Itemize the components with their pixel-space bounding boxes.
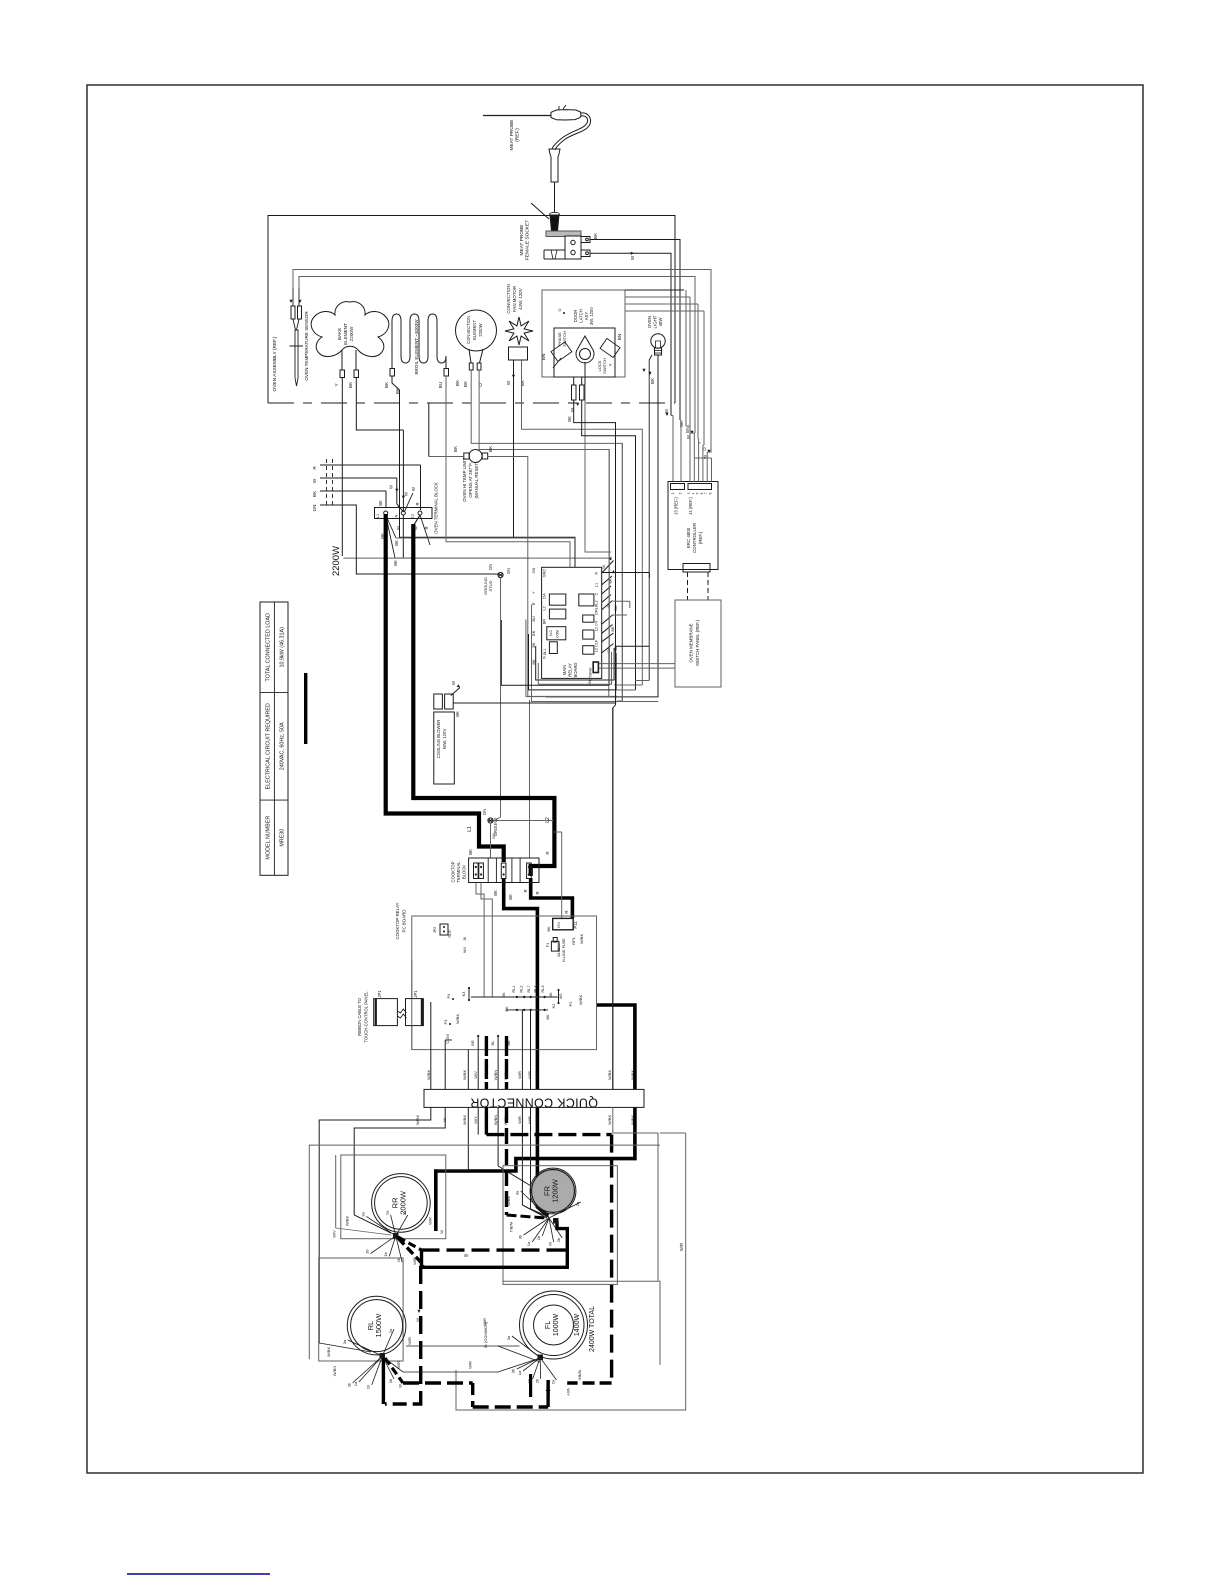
svg-text:1a: 1a bbox=[385, 1210, 390, 1215]
svg-text:W/BK: W/BK bbox=[345, 1216, 350, 1227]
svg-text:3a: 3a bbox=[360, 1211, 365, 1216]
svg-text:COM: COM bbox=[445, 1034, 450, 1043]
svg-text:L2: L2 bbox=[543, 606, 547, 610]
svg-text:BN: BN bbox=[685, 427, 690, 433]
svg-text:3A 250V: 3A 250V bbox=[557, 942, 561, 957]
svg-text:GN: GN bbox=[532, 567, 536, 573]
svg-text:W/BK: W/BK bbox=[462, 1070, 467, 1081]
svg-text:240VAC, 60Hz, 50A: 240VAC, 60Hz, 50A bbox=[280, 722, 286, 770]
svg-text:MEAT PROBE: MEAT PROBE bbox=[509, 119, 515, 150]
svg-text:Y: Y bbox=[608, 363, 613, 366]
svg-text:1b: 1b bbox=[536, 1235, 541, 1240]
svg-text:W4: W4 bbox=[463, 947, 467, 953]
svg-text:BK: BK bbox=[312, 490, 317, 497]
svg-text:BU: BU bbox=[532, 616, 536, 622]
svg-text:W: W bbox=[404, 492, 409, 496]
svg-text:W/R: W/R bbox=[517, 1116, 522, 1124]
svg-text:LIGHT: LIGHT bbox=[653, 315, 658, 328]
svg-text:3a: 3a bbox=[515, 1190, 520, 1195]
svg-text:R: R bbox=[523, 889, 528, 892]
svg-text:R: R bbox=[532, 602, 536, 605]
svg-text:1200W: 1200W bbox=[551, 1178, 560, 1203]
svg-text:N-LINE FUSE: N-LINE FUSE bbox=[562, 938, 566, 962]
svg-text:2200W: 2200W bbox=[349, 326, 354, 341]
svg-text:W/BU: W/BU bbox=[509, 1222, 514, 1233]
svg-text:1b: 1b bbox=[383, 1251, 388, 1256]
svg-text:W/R: W/R bbox=[396, 1361, 401, 1369]
svg-text:OVEN MEMBRANE: OVEN MEMBRANE bbox=[689, 623, 694, 662]
svg-text:GND: GND bbox=[543, 569, 547, 578]
svg-text:W/R: W/R bbox=[407, 1337, 412, 1345]
svg-text:P2: P2 bbox=[568, 1001, 573, 1007]
svg-text:W/BK: W/BK bbox=[577, 1370, 582, 1381]
svg-text:W/BU: W/BU bbox=[503, 1070, 508, 1081]
svg-text:RL4: RL4 bbox=[534, 986, 538, 993]
svg-text:1: 1 bbox=[671, 492, 675, 494]
svg-text:BK: BK bbox=[384, 381, 389, 388]
svg-text:COOKTOP: COOKTOP bbox=[451, 861, 456, 882]
svg-text:W/BK: W/BK bbox=[506, 1196, 511, 1207]
svg-text:PC BOARD: PC BOARD bbox=[402, 910, 407, 933]
svg-text:JP1: JP1 bbox=[413, 990, 418, 998]
svg-text:GN: GN bbox=[506, 568, 511, 574]
svg-text:BK: BK bbox=[508, 894, 513, 900]
svg-text:BK: BK bbox=[455, 711, 460, 717]
svg-text:L1: L1 bbox=[467, 826, 473, 832]
svg-text:BLOCK: BLOCK bbox=[461, 865, 466, 879]
svg-text:COOLING BLOWER: COOLING BLOWER bbox=[436, 720, 441, 759]
svg-text:CONVECTION: CONVECTION bbox=[506, 284, 511, 313]
svg-text:1a: 1a bbox=[353, 1381, 358, 1386]
svg-text:TERMINAL: TERMINAL bbox=[456, 861, 461, 883]
svg-text:DA: DA bbox=[543, 593, 547, 599]
svg-text:Y: Y bbox=[334, 383, 339, 386]
svg-text:N: N bbox=[395, 514, 399, 517]
svg-text:W/V: W/V bbox=[332, 1230, 337, 1238]
svg-text:CONTROLLER: CONTROLLER bbox=[692, 523, 697, 553]
svg-text:W/R: W/R bbox=[534, 1116, 539, 1124]
svg-text:W/R: W/R bbox=[517, 1071, 522, 1079]
svg-text:W/R: W/R bbox=[482, 1318, 487, 1326]
svg-text:TOUCH-CONTROL PANEL: TOUCH-CONTROL PANEL bbox=[364, 991, 369, 1043]
svg-text:3a: 3a bbox=[342, 1339, 347, 1344]
svg-text:R: R bbox=[545, 851, 550, 854]
svg-text:BK: BK bbox=[468, 849, 473, 855]
svg-text:W/R: W/R bbox=[527, 1116, 532, 1124]
svg-text:2b: 2b bbox=[396, 1257, 401, 1262]
svg-text:GN: GN bbox=[482, 809, 487, 815]
svg-text:K3: K3 bbox=[462, 992, 466, 997]
svg-text:BK: BK bbox=[567, 416, 572, 422]
svg-text:RL2: RL2 bbox=[520, 986, 524, 993]
svg-text:3a: 3a bbox=[506, 1335, 511, 1340]
svg-text:CONVECTION: CONVECTION bbox=[466, 316, 471, 344]
svg-text:OVEN: OVEN bbox=[647, 316, 652, 328]
svg-text:L2: L2 bbox=[411, 514, 415, 518]
svg-text:BK: BK bbox=[593, 232, 598, 239]
svg-text:(MANUAL RESET): (MANUAL RESET) bbox=[474, 461, 479, 498]
svg-text:BK: BK bbox=[394, 540, 399, 546]
svg-text:N: N bbox=[595, 571, 599, 574]
svg-text:L2 CLF: L2 CLF bbox=[595, 639, 599, 652]
svg-text:BU: BU bbox=[438, 382, 443, 388]
svg-text:R: R bbox=[312, 466, 317, 470]
svg-text:TOTAL CONNECTED LOAD: TOTAL CONNECTED LOAD bbox=[266, 613, 272, 682]
svg-text:W: W bbox=[548, 1242, 553, 1246]
svg-text:BK: BK bbox=[463, 380, 468, 387]
svg-text:C: C bbox=[595, 592, 599, 595]
svg-text:O: O bbox=[558, 308, 562, 311]
svg-text:W: W bbox=[464, 1253, 468, 1258]
svg-text:GN: GN bbox=[312, 505, 317, 512]
svg-text:DRLK: DRLK bbox=[595, 604, 599, 615]
svg-text:BK: BK bbox=[546, 926, 551, 932]
svg-text:BK: BK bbox=[614, 605, 618, 611]
svg-text:W/Y: W/Y bbox=[483, 1071, 488, 1079]
svg-text:MRE30: MRE30 bbox=[280, 829, 286, 847]
svg-text:W/V: W/V bbox=[473, 1071, 478, 1079]
svg-text:BK: BK bbox=[611, 626, 615, 632]
svg-text:W: W bbox=[664, 409, 669, 413]
svg-text:SHIELD: SHIELD bbox=[588, 668, 592, 681]
svg-text:OPENS AT 287°F.: OPENS AT 287°F. bbox=[468, 462, 473, 497]
svg-text:W: W bbox=[396, 526, 401, 530]
svg-text:FEMALE SOCKET: FEMALE SOCKET bbox=[525, 220, 531, 260]
svg-text:SWITCH PANEL (REF.): SWITCH PANEL (REF.) bbox=[695, 619, 700, 666]
svg-text:W/BK: W/BK bbox=[579, 934, 584, 945]
svg-text:10.9kW (46.31A): 10.9kW (46.31A) bbox=[280, 627, 286, 668]
svg-text:W/BK: W/BK bbox=[326, 1347, 331, 1358]
svg-text:W: W bbox=[411, 487, 416, 491]
svg-text:BR: BR bbox=[471, 1040, 475, 1046]
svg-text:COOKTOP RELAY: COOKTOP RELAY bbox=[395, 902, 400, 939]
svg-text:R: R bbox=[564, 910, 569, 913]
svg-text:W/Y: W/Y bbox=[566, 1388, 571, 1396]
svg-text:R: R bbox=[424, 526, 429, 529]
svg-text:ELEMENT: ELEMENT bbox=[343, 323, 348, 345]
svg-text:MEAT PROBE: MEAT PROBE bbox=[519, 224, 525, 255]
svg-text:SWITCH: SWITCH bbox=[602, 358, 607, 374]
svg-text:RL5: RL5 bbox=[448, 931, 452, 938]
svg-text:P4: P4 bbox=[447, 994, 451, 999]
svg-text:BN: BN bbox=[541, 354, 546, 360]
svg-text:W/BN: W/BN bbox=[493, 1070, 498, 1081]
svg-text:60W, 120V: 60W, 120V bbox=[442, 729, 447, 750]
svg-text:40W: 40W bbox=[658, 317, 663, 327]
svg-text:1500W: 1500W bbox=[374, 1313, 383, 1338]
svg-text:W: W bbox=[389, 485, 394, 489]
svg-text:3W, 120V: 3W, 120V bbox=[589, 307, 594, 325]
svg-text:RELAY: RELAY bbox=[568, 663, 573, 677]
svg-text:W: W bbox=[630, 255, 635, 260]
svg-text:BK: BK bbox=[378, 500, 383, 506]
svg-text:P3: P3 bbox=[444, 1020, 448, 1025]
svg-text:3b: 3b bbox=[511, 1368, 516, 1373]
svg-text:W: W bbox=[442, 1118, 447, 1122]
svg-text:BK: BK bbox=[453, 445, 458, 452]
svg-text:BOARD: BOARD bbox=[573, 663, 578, 678]
svg-text:FL: FL bbox=[545, 1321, 552, 1329]
svg-text:BAKE: BAKE bbox=[337, 328, 342, 340]
svg-text:MAIN: MAIN bbox=[562, 665, 567, 675]
svg-text:RIBBON CABLE TO: RIBBON CABLE TO bbox=[357, 997, 362, 1036]
svg-text:W/BK: W/BK bbox=[630, 1115, 635, 1126]
svg-text:L2 CV: L2 CV bbox=[595, 620, 599, 631]
svg-text:W/R: W/R bbox=[679, 1243, 684, 1251]
svg-text:ERC 4800: ERC 4800 bbox=[686, 527, 691, 548]
svg-text:N: N bbox=[543, 656, 547, 659]
svg-text:OVEN HI TEMP LIMIT: OVEN HI TEMP LIMIT bbox=[462, 458, 467, 502]
svg-text:COM: COM bbox=[556, 630, 560, 638]
svg-text:BK: BK bbox=[520, 379, 525, 386]
svg-text:BK: BK bbox=[501, 992, 506, 998]
svg-text:RL1: RL1 bbox=[512, 986, 516, 993]
svg-text:BK: BK bbox=[507, 1040, 511, 1046]
svg-text:2b: 2b bbox=[535, 1378, 540, 1383]
svg-text:2a: 2a bbox=[575, 1201, 580, 1206]
svg-text:W/R: W/R bbox=[468, 1361, 473, 1369]
svg-text:(REF.): (REF.) bbox=[515, 128, 521, 142]
svg-text:Y: Y bbox=[697, 441, 702, 444]
svg-text:RP1: RP1 bbox=[571, 936, 576, 945]
svg-text:ASY: ASY bbox=[584, 312, 589, 321]
svg-text:W: W bbox=[312, 478, 317, 483]
svg-text:1a: 1a bbox=[517, 1370, 522, 1375]
svg-text:W: W bbox=[601, 565, 606, 569]
svg-text:W/BN: W/BN bbox=[332, 1366, 337, 1377]
svg-text:1a: 1a bbox=[526, 1241, 531, 1246]
svg-text:BK: BK bbox=[504, 1006, 509, 1012]
svg-text:W: W bbox=[439, 1230, 444, 1234]
svg-text:BL: BL bbox=[491, 1041, 495, 1046]
svg-text:P11: P11 bbox=[573, 921, 578, 929]
svg-text:J4 (REF.): J4 (REF.) bbox=[688, 497, 693, 515]
svg-text:BK: BK bbox=[455, 379, 460, 386]
svg-text:3: 3 bbox=[679, 492, 683, 494]
svg-text:L1: L1 bbox=[376, 514, 380, 518]
svg-text:1000W: 1000W bbox=[553, 1314, 560, 1337]
svg-text:GN: GN bbox=[488, 564, 493, 570]
svg-text:2a: 2a bbox=[551, 1379, 556, 1384]
svg-text:J6: J6 bbox=[463, 937, 467, 941]
svg-text:8: 8 bbox=[709, 492, 713, 494]
svg-text:R: R bbox=[415, 502, 420, 505]
svg-text:W: W bbox=[451, 681, 456, 685]
svg-text:SWITCH: SWITCH bbox=[562, 331, 567, 347]
svg-text:W/Y: W/Y bbox=[473, 1116, 478, 1124]
svg-text:(REF.): (REF.) bbox=[698, 531, 703, 544]
svg-text:LATCH: LATCH bbox=[578, 309, 583, 322]
svg-text:OL1: OL1 bbox=[543, 649, 547, 656]
svg-text:BK: BK bbox=[488, 445, 493, 452]
svg-text:RL3: RL3 bbox=[541, 986, 545, 993]
svg-text:L1: L1 bbox=[595, 583, 599, 587]
svg-text:L2: L2 bbox=[545, 817, 551, 823]
svg-text:41W, 120V: 41W, 120V bbox=[518, 288, 523, 310]
svg-text:BK: BK bbox=[545, 1014, 550, 1020]
svg-text:BK: BK bbox=[548, 992, 553, 998]
svg-text:2200W: 2200W bbox=[331, 546, 342, 576]
svg-text:2b: 2b bbox=[556, 1237, 561, 1242]
svg-text:DOOR: DOOR bbox=[573, 310, 578, 323]
svg-text:BK: BK bbox=[532, 630, 536, 636]
svg-text:JP2: JP2 bbox=[433, 927, 437, 934]
svg-text:RL7: RL7 bbox=[527, 986, 531, 993]
svg-text:3b: 3b bbox=[365, 1249, 370, 1254]
svg-text:1b: 1b bbox=[366, 1384, 371, 1389]
svg-text:W: W bbox=[415, 1318, 420, 1322]
svg-text:FAN MOTOR: FAN MOTOR bbox=[512, 286, 517, 312]
svg-text:W/R: W/R bbox=[428, 1217, 433, 1225]
svg-text:ELECTRICAL CIRCUIT REQUIRED: ELECTRICAL CIRCUIT REQUIRED bbox=[266, 703, 272, 789]
svg-text:OVEN TEMPERATURE SENSOR: OVEN TEMPERATURE SENSOR bbox=[304, 311, 309, 381]
svg-text:BN: BN bbox=[617, 334, 622, 340]
svg-text:JP1: JP1 bbox=[377, 990, 382, 998]
svg-text:L2: L2 bbox=[595, 600, 599, 604]
svg-text:W/BK: W/BK bbox=[607, 1070, 612, 1081]
svg-text:BR: BR bbox=[543, 619, 547, 625]
svg-text:F1: F1 bbox=[546, 943, 550, 947]
svg-text:W/BK: W/BK bbox=[607, 1115, 612, 1126]
svg-text:3b: 3b bbox=[347, 1382, 352, 1387]
svg-text:2b: 2b bbox=[388, 1378, 393, 1383]
svg-text:Y: Y bbox=[532, 591, 536, 594]
svg-text:W/BK: W/BK bbox=[578, 995, 583, 1006]
svg-text:K2: K2 bbox=[552, 1004, 556, 1009]
svg-text:J3 (REF.): J3 (REF.) bbox=[674, 497, 679, 515]
svg-text:ELEMENT: ELEMENT bbox=[472, 320, 477, 340]
svg-text:2400W TOTAL: 2400W TOTAL bbox=[589, 1306, 596, 1352]
svg-text:BROIL ELEMENT ~3000W: BROIL ELEMENT ~3000W bbox=[414, 319, 419, 375]
svg-text:3b: 3b bbox=[518, 1234, 523, 1239]
svg-text:STUD: STUD bbox=[488, 580, 493, 591]
svg-text:W/BK: W/BK bbox=[426, 1070, 431, 1081]
svg-text:2a: 2a bbox=[402, 1210, 407, 1215]
svg-text:W/BN: W/BN bbox=[493, 1115, 498, 1126]
svg-text:MODEL NUMBER: MODEL NUMBER bbox=[266, 816, 272, 860]
svg-text:W/R: W/R bbox=[534, 1071, 539, 1079]
svg-text:W/BK: W/BK bbox=[462, 1115, 467, 1126]
svg-text:W/BK: W/BK bbox=[455, 1014, 460, 1025]
svg-text:OVEN TERMINAL BLOCK: OVEN TERMINAL BLOCK bbox=[434, 482, 439, 534]
svg-text:W1: W1 bbox=[559, 993, 563, 999]
svg-text:GN: GN bbox=[556, 922, 561, 928]
svg-text:OVEN ASSEMBLY (REF.): OVEN ASSEMBLY (REF.) bbox=[272, 336, 278, 391]
svg-text:2200W: 2200W bbox=[478, 323, 483, 336]
svg-text:W/BK: W/BK bbox=[630, 1070, 635, 1081]
svg-text:BK: BK bbox=[393, 560, 398, 566]
svg-text:N.C: N.C bbox=[549, 630, 553, 636]
svg-text:W: W bbox=[398, 1384, 403, 1388]
svg-text:QUICK CONNECTOR: QUICK CONNECTOR bbox=[470, 1096, 598, 1110]
svg-text:W/R: W/R bbox=[527, 1071, 532, 1079]
svg-text:BK: BK bbox=[493, 890, 498, 896]
svg-text:BK: BK bbox=[348, 381, 353, 388]
svg-text:W: W bbox=[506, 380, 511, 385]
svg-text:GN: GN bbox=[491, 833, 496, 839]
svg-text:BK: BK bbox=[650, 377, 655, 384]
svg-text:R: R bbox=[535, 891, 540, 894]
svg-text:1400W: 1400W bbox=[574, 1314, 581, 1337]
svg-text:W: W bbox=[570, 407, 575, 412]
